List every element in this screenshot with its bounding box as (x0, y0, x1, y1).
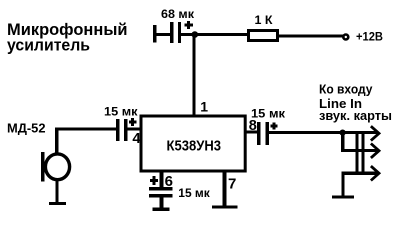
wire: pin 8 lead (245, 131, 257, 134)
connector: plug contact 1 (tip, arrow) (344, 126, 379, 140)
wire: resistor to +12V terminal (279, 35, 343, 38)
wire: C1 to resistor (181, 33, 247, 36)
svg-text:7: 7 (228, 175, 236, 192)
label Ко входу Line In звук. карты (319, 82, 392, 123)
svg-text:1: 1 (200, 99, 208, 115)
wire: C2 to pin 4 (128, 128, 142, 131)
capacitor C1 68 мк (electrolytic, input) (153, 21, 193, 43)
svg-text:15 мк: 15 мк (178, 186, 210, 200)
node: junction at pin 1 / C1 / R1 (192, 31, 199, 38)
wire: junction down to pin 1 (193, 35, 196, 117)
terminal +12В (343, 35, 348, 40)
capacitor C3 15 мк (pin 6, electrolytic to ground) (149, 176, 173, 197)
ground (microphone) (49, 202, 66, 205)
svg-text:15 мк: 15 мк (104, 104, 139, 118)
svg-text:68 мк: 68 мк (161, 7, 195, 21)
connector: socket lines (355, 131, 364, 175)
wire: C4 to output connector (269, 131, 343, 134)
resistor R1 1 К (249, 31, 278, 41)
svg-text:звук. карты: звук. карты (319, 108, 392, 123)
ground (connector) (332, 196, 354, 199)
ground (pin 7) (212, 206, 238, 209)
svg-text:+12В: +12В (356, 30, 383, 44)
svg-text:К538УН3: К538УН3 (167, 137, 222, 154)
capacitor C4 15 мк (pin 8 output) (257, 122, 277, 145)
node: output junction (340, 130, 346, 136)
title text "Микрофонный усилитель" (7, 20, 128, 54)
microphone МД-52 (41, 152, 70, 182)
wire: mic to C2 (55, 128, 116, 131)
svg-text:1 К: 1 К (255, 13, 274, 27)
ground (C3) (152, 207, 169, 210)
wire: mic to ground (55, 179, 58, 203)
op-amp IC U1 К538УН3 (141, 116, 245, 171)
wire: sleeve to ground (342, 172, 345, 196)
svg-text:4: 4 (132, 130, 141, 147)
connector: plug contact 2 (ring, arrow) (341, 144, 379, 158)
wire: C3 to ground (160, 197, 164, 207)
connector: plug contact 3 (sleeve, arrow) (342, 166, 380, 180)
svg-text:15 мк: 15 мк (251, 107, 286, 121)
wire: mic riser (55, 128, 58, 156)
svg-text:Ко входу: Ко входу (319, 82, 373, 97)
svg-text:усилитель: усилитель (7, 35, 90, 54)
wire: junction down to contact 2 (341, 133, 344, 152)
capacitor C2 15 мк (pin 4 input) (116, 118, 137, 141)
wire: pin 6 lead (160, 171, 164, 188)
wire: pin 7 to ground (222, 171, 226, 206)
svg-text:МД-52: МД-52 (7, 121, 46, 135)
